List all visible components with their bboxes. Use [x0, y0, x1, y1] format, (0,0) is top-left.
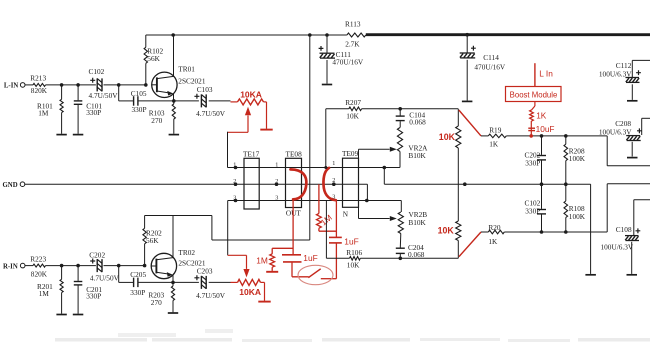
svg-text:4.7U/50V: 4.7U/50V	[196, 109, 226, 118]
connector TE17	[243, 150, 260, 210]
terminal GND	[3, 182, 25, 189]
svg-text:4.7U/50V: 4.7U/50V	[89, 91, 119, 100]
svg-text:C202: C202	[89, 250, 105, 259]
ground under R101	[56, 134, 66, 136]
wiper arrow VR2B	[359, 207, 397, 221]
wire R223 to C202	[46, 265, 96, 267]
wire wiper to TE17 pin1 (red then black)	[228, 132, 249, 168]
pin labels TE09	[332, 160, 335, 200]
svg-text:10KA: 10KA	[239, 287, 261, 297]
svg-text:330P: 330P	[525, 158, 540, 167]
resistor R20	[481, 223, 504, 246]
resistor 10K lower (red label)	[438, 221, 461, 258]
svg-text:820K: 820K	[31, 86, 48, 95]
resistor 1M right (red)	[317, 184, 337, 231]
capacitor C204	[396, 243, 425, 259]
wire R19 jog	[607, 136, 650, 166]
svg-text:0.068: 0.068	[408, 250, 425, 259]
svg-text:C105: C105	[131, 89, 147, 98]
capacitor C104	[396, 109, 426, 127]
ground under C111	[322, 84, 332, 86]
capacitor C112 (electrolytic)	[599, 60, 650, 100]
pin labels TE17	[233, 161, 236, 201]
wire TR02 emitter	[172, 275, 174, 283]
svg-text:1M: 1M	[38, 108, 49, 117]
capacitor C205	[119, 270, 173, 297]
wire C202 to TR02 base node	[104, 265, 145, 267]
node center vertical on rail	[308, 33, 312, 37]
ground under C208	[627, 157, 638, 159]
svg-text:Boost Module: Boost Module	[510, 90, 558, 99]
wire 10KA lower right leg (red)	[261, 282, 265, 300]
svg-text:0.068: 0.068	[409, 118, 426, 127]
ground under C101	[73, 134, 84, 136]
potentiometer VR2A	[397, 121, 428, 167]
potentiometer 10KA lower (red)	[231, 279, 262, 297]
node R208 bottom	[564, 182, 568, 186]
svg-text:1K: 1K	[488, 237, 498, 246]
node pin1 jog	[383, 166, 387, 170]
svg-text:R20: R20	[488, 223, 501, 232]
resistor R19	[481, 126, 506, 149]
wire TR01 emitter	[173, 94, 175, 101]
wire center vertical	[309, 35, 311, 240]
wire GND row	[25, 183, 368, 185]
resistor R208	[564, 136, 586, 184]
transistor TR01	[152, 65, 206, 98]
node C111 on rail	[325, 33, 329, 37]
wire mid row right	[384, 183, 590, 185]
wire C203 to 10KA pot lower	[209, 281, 231, 283]
capacitor 1uF right (red)	[329, 237, 359, 247]
ground under C114	[462, 100, 473, 102]
node R101 junction	[60, 83, 64, 87]
svg-text:330P: 330P	[130, 288, 145, 297]
svg-text:L-IN: L-IN	[4, 83, 18, 90]
svg-text:2: 2	[233, 178, 236, 185]
wire C102 to TR01 base node	[104, 84, 146, 86]
svg-text:R207: R207	[345, 98, 361, 107]
node TE08 pin2	[275, 182, 279, 186]
svg-text:100U/6.3V: 100U/6.3V	[601, 242, 634, 251]
wire TR02 collector	[172, 216, 174, 258]
red diagonal lower	[459, 232, 481, 257]
svg-text:R106: R106	[346, 248, 362, 257]
svg-text:1M: 1M	[39, 289, 50, 298]
capacitor C203 (electrolytic)	[194, 266, 225, 300]
svg-text:1: 1	[233, 161, 236, 168]
node TE17 pin1	[234, 166, 238, 170]
node TR02 base / R202	[143, 264, 147, 268]
node TE17 pin2	[234, 182, 238, 186]
red wire switch right	[321, 243, 337, 279]
wire R213 to C102	[46, 84, 96, 86]
wire supply rail (thin, collector node)	[146, 34, 347, 36]
svg-text:270: 270	[151, 298, 162, 307]
svg-text:C114: C114	[483, 53, 499, 62]
svg-text:100K: 100K	[569, 212, 586, 221]
svg-text:330P: 330P	[86, 108, 101, 117]
wiper arrow 10KA upper (red)	[245, 107, 251, 133]
terminator bar 10KA lower (red)	[258, 301, 270, 303]
ground under C108	[627, 274, 638, 276]
wire GND row jog down to pin3	[366, 184, 368, 200]
node C205 tap	[117, 264, 121, 268]
wire R20 row	[504, 231, 607, 233]
svg-text:100K: 100K	[569, 154, 586, 163]
transistor TR02	[151, 248, 206, 279]
resistor R106	[326, 248, 458, 270]
svg-text:R223: R223	[30, 254, 46, 263]
svg-text:TE08: TE08	[286, 150, 303, 159]
red L In stub	[535, 63, 553, 86]
ground under R201	[56, 314, 66, 316]
pin labels TE08	[275, 161, 278, 201]
svg-text:TR02: TR02	[178, 248, 195, 257]
resistor R201	[37, 266, 63, 314]
resistor R113	[345, 19, 366, 48]
wire emitter row2 to C203	[173, 281, 199, 283]
svg-text:GND: GND	[3, 182, 18, 189]
red wire 1uF right up	[335, 200, 337, 237]
svg-text:R-IN: R-IN	[3, 263, 18, 270]
boost module box (red)	[506, 87, 562, 102]
svg-text:820K: 820K	[31, 269, 48, 278]
node TE17 pin3	[234, 199, 238, 203]
svg-text:330P: 330P	[525, 206, 540, 215]
svg-text:330P: 330P	[86, 291, 101, 300]
svg-text:56K: 56K	[146, 236, 159, 245]
node R207/pin1	[324, 166, 327, 169]
terminator bar 10KA upper (red)	[260, 129, 272, 131]
wire L-IN to R213	[25, 84, 33, 86]
svg-text:2.7K: 2.7K	[345, 39, 360, 48]
svg-text:100U/6.3V: 100U/6.3V	[599, 69, 632, 78]
wire pin3 row	[228, 200, 402, 202]
svg-text:R213: R213	[30, 74, 46, 83]
wire R207 left drop	[325, 109, 327, 168]
capacitor C102 (electrolytic)	[89, 67, 119, 100]
svg-text:TR01: TR01	[178, 65, 195, 74]
capacitor C103 (electrolytic)	[194, 85, 225, 118]
wire R106 left drop	[325, 201, 327, 259]
node C114 on rail	[465, 33, 469, 37]
svg-text:C203: C203	[197, 266, 213, 275]
resistor R203	[148, 282, 174, 312]
ground under R103	[169, 134, 180, 136]
resistor R108	[564, 184, 586, 232]
svg-text:2: 2	[275, 178, 278, 185]
svg-text:1uF: 1uF	[303, 253, 317, 263]
svg-text:R113: R113	[345, 19, 361, 28]
svg-text:100U/6.3V: 100U/6.3V	[599, 128, 632, 137]
node C204 bottom	[399, 257, 403, 261]
wire R19 row	[506, 135, 607, 137]
wire TR02 rail	[145, 215, 212, 217]
node emitter junction TR01	[172, 99, 176, 103]
capacitor C202 (electrolytic)	[89, 250, 119, 282]
wire bridge down	[211, 216, 213, 241]
svg-text:330P: 330P	[132, 105, 147, 114]
node TR01 collector on rail	[171, 33, 175, 37]
connector TE08	[286, 150, 303, 218]
node C102 bottom	[540, 230, 544, 234]
wire bridge across	[212, 239, 310, 241]
node C202 top	[540, 134, 544, 138]
wire C205 drop	[118, 266, 120, 283]
svg-text:2: 2	[332, 177, 335, 184]
node C105 tap	[117, 83, 121, 87]
resistor R202	[143, 216, 162, 266]
ground under C112	[627, 100, 638, 102]
svg-text:L In: L In	[539, 68, 553, 78]
node TR01 base / R102	[144, 83, 148, 87]
annotation ellipse around switch	[298, 265, 333, 284]
wire C103 to 10KA pot	[209, 100, 231, 102]
wire supply rail thick (after R113)	[366, 33, 650, 36]
wiper arrow VR2A	[359, 147, 397, 158]
capacitor C114 (electrolytic)	[460, 35, 506, 101]
faint scan artifacts bottom	[55, 329, 650, 342]
switch lever (red)	[308, 269, 320, 278]
red wire 1K to R19 row	[530, 121, 532, 136]
svg-text:1K: 1K	[489, 140, 499, 149]
wire emitter row to C103	[174, 100, 199, 102]
node emitter junction TR02	[171, 281, 175, 285]
wire C105 drop	[118, 85, 120, 101]
ground under C201	[73, 314, 84, 316]
terminal L-IN	[4, 83, 25, 90]
capacitor C105	[119, 89, 174, 114]
node TE09 pin2	[332, 182, 336, 186]
capacitor 1uF left (red)	[282, 253, 318, 263]
ground right-mid	[585, 274, 596, 276]
capacitor 10uF boost (red)	[528, 124, 554, 134]
svg-text:B10K: B10K	[408, 151, 426, 160]
wiper arrow 10KA lower (red)	[243, 255, 249, 277]
resistor R103	[149, 101, 176, 134]
svg-text:10KA: 10KA	[240, 90, 262, 100]
resistor R207	[326, 98, 459, 120]
svg-text:4.7U/50V: 4.7U/50V	[196, 291, 226, 300]
capacitor C208 (electrolytic)	[599, 118, 650, 156]
svg-text:56K: 56K	[147, 54, 160, 63]
svg-text:10K: 10K	[346, 112, 359, 121]
svg-text:1K: 1K	[536, 110, 547, 120]
svg-text:1: 1	[332, 160, 335, 167]
red wire 1uF left to switch	[292, 262, 309, 277]
capacitor C101	[74, 85, 103, 134]
svg-text:1: 1	[275, 161, 278, 168]
svg-text:C102: C102	[89, 67, 105, 76]
capacitor C201	[74, 266, 103, 314]
wire R20 jog	[607, 184, 650, 232]
node TE09 pin3 right	[365, 199, 369, 203]
red wire TE08 arc to 1uF	[292, 199, 294, 254]
svg-text:C108: C108	[616, 225, 632, 234]
svg-text:4.7U/50V: 4.7U/50V	[90, 273, 120, 282]
svg-text:10uF: 10uF	[536, 124, 555, 134]
red bypass arc TE09	[323, 168, 335, 200]
svg-text:270: 270	[151, 116, 162, 125]
wire pin1 jog down	[383, 168, 385, 185]
wire R-IN to R223	[25, 265, 33, 267]
red diagonal upper	[459, 110, 481, 136]
node R208 top	[564, 134, 568, 138]
node C104 top	[398, 107, 402, 111]
node C101 junction	[76, 83, 80, 87]
connector TE09	[342, 149, 359, 218]
wire mid row to ground	[590, 184, 592, 274]
resistor 1K boost (red)	[530, 102, 547, 122]
wire TR01 collector	[173, 35, 175, 76]
svg-text:C103: C103	[197, 85, 213, 94]
svg-text:470U/16V: 470U/16V	[332, 58, 364, 67]
svg-text:10K: 10K	[438, 225, 455, 235]
resistor 1M left (red)	[256, 248, 293, 271]
svg-text:B10K: B10K	[408, 218, 426, 227]
resistor R102	[144, 35, 163, 85]
potentiometer 10KA upper (red)	[231, 90, 264, 105]
svg-text:R19: R19	[489, 126, 502, 135]
node R201 junction	[60, 264, 64, 268]
svg-text:470U/16V: 470U/16V	[474, 62, 506, 71]
svg-text:3: 3	[233, 194, 236, 201]
node C202 bottom	[540, 182, 544, 186]
svg-text:TE17: TE17	[243, 150, 260, 159]
resistor R223	[30, 254, 47, 278]
red bypass arc TE08	[291, 169, 307, 199]
terminator bar 1M left (red)	[266, 271, 278, 273]
svg-text:N: N	[343, 210, 349, 219]
svg-text:1uF: 1uF	[344, 237, 358, 247]
capacitor C102 (330P)	[524, 184, 546, 232]
node mid divider	[463, 182, 467, 186]
svg-text:TE09: TE09	[342, 149, 359, 158]
svg-text:10K: 10K	[439, 132, 456, 142]
wire pin1 row	[228, 167, 400, 169]
terminal R-IN	[3, 263, 25, 270]
svg-text:1M: 1M	[256, 255, 268, 265]
ground under R203	[168, 312, 178, 314]
svg-text:3: 3	[275, 194, 278, 201]
resistor 10K upper (red label)	[439, 109, 461, 221]
capacitor C108 (electrolytic)	[601, 200, 650, 274]
svg-text:10K: 10K	[347, 261, 360, 270]
capacitor C202 (330P)	[524, 136, 546, 184]
capacitor C111 (electrolytic)	[319, 35, 364, 84]
node R108 bottom	[564, 230, 568, 234]
node C201 junction	[76, 264, 80, 268]
resistor R213	[30, 74, 47, 95]
wire 10KA upper right leg (red)	[264, 102, 267, 129]
potentiometer VR2B	[398, 201, 427, 248]
resistor R101	[37, 85, 63, 134]
wire TE17 pin3 to lower wiper	[228, 201, 247, 256]
node boost on R19 row (red)	[529, 134, 533, 138]
svg-text:C205: C205	[130, 270, 146, 279]
